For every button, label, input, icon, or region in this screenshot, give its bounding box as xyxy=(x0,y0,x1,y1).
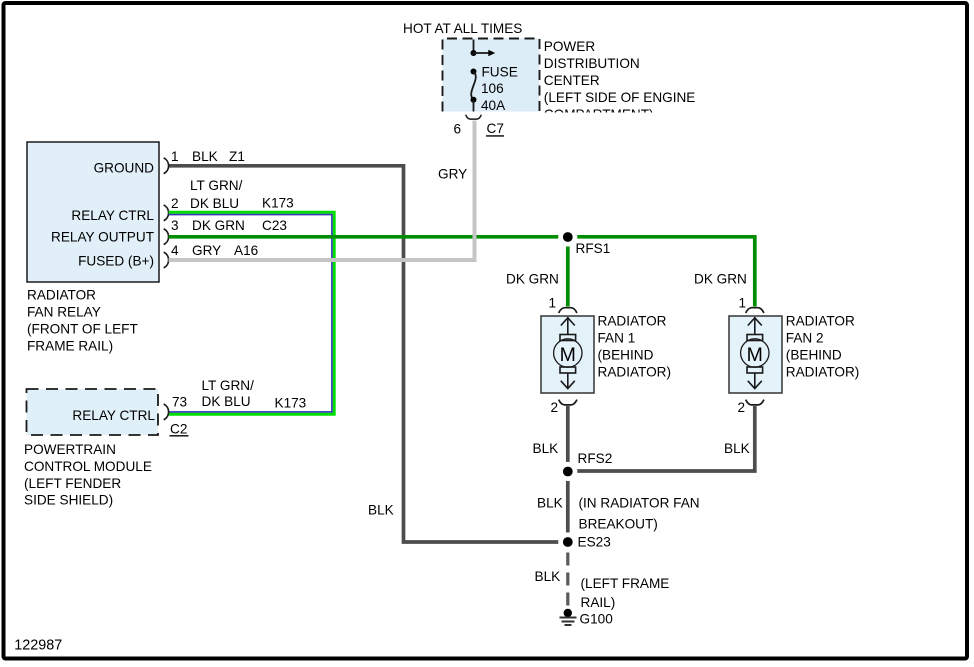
svg-text:BLK: BLK xyxy=(537,496,563,511)
svg-text:6: 6 xyxy=(453,121,461,136)
wire BLK RFS2 to ES23 xyxy=(566,472,570,543)
wire C23 DK GRN: pin3 to fan2 xyxy=(169,237,755,307)
bus arrow (hot feed) xyxy=(474,50,496,57)
splice RFS1 (white halo) xyxy=(558,227,577,246)
note (LEFT FRAME RAIL) xyxy=(581,576,670,610)
svg-text:C23: C23 xyxy=(262,218,287,233)
relay caption xyxy=(27,288,138,354)
svg-text:1: 1 xyxy=(548,296,556,311)
svg-text:2: 2 xyxy=(171,196,179,211)
svg-text:BLK: BLK xyxy=(368,503,394,518)
svg-text:FRAME RAIL): FRAME RAIL) xyxy=(27,339,113,354)
svg-text:A16: A16 xyxy=(234,243,258,258)
fan2 bottom connector arc xyxy=(746,400,764,405)
svg-text:RELAY CTRL: RELAY CTRL xyxy=(71,208,154,223)
svg-text:RELAY OUTPUT: RELAY OUTPUT xyxy=(51,230,154,245)
svg-text:CENTER: CENTER xyxy=(544,73,600,88)
wire label LT GRN/ DK BLU K173 (upper) xyxy=(171,178,294,211)
svg-text:BLK Z1: BLK Z1 xyxy=(192,149,245,164)
wire label LT GRN/ DK BLU K173 (lower) xyxy=(202,378,307,411)
pin 4 number and label GRY A16 xyxy=(171,243,258,258)
radiator fan relay box xyxy=(27,142,159,282)
connector label C7 xyxy=(486,121,504,136)
svg-text:FAN RELAY: FAN RELAY xyxy=(27,305,101,320)
svg-text:FAN 1: FAN 1 xyxy=(598,331,636,346)
svg-text:GRY: GRY xyxy=(438,167,467,182)
PCM caption xyxy=(24,442,152,508)
svg-text:(LEFT FENDER: (LEFT FENDER xyxy=(24,476,121,491)
svg-text:RADIATOR): RADIATOR) xyxy=(598,365,672,380)
svg-text:LT GRN/: LT GRN/ xyxy=(190,178,243,193)
radiator fan 2 motor box xyxy=(729,316,782,393)
svg-text:BLK: BLK xyxy=(535,569,561,584)
svg-text:BLK: BLK xyxy=(724,441,750,456)
connector C7 symbol xyxy=(466,115,482,119)
splice RFS1 xyxy=(563,232,573,242)
connector pin 2 arc xyxy=(164,205,169,221)
svg-text:SIDE SHIELD): SIDE SHIELD) xyxy=(24,493,113,508)
svg-text:C2: C2 xyxy=(170,422,187,437)
svg-text:RADIATOR: RADIATOR xyxy=(598,314,667,329)
wire Z1 BLK: pin1 right, down, to ES23 xyxy=(169,166,568,542)
splice RFS2 (white halo) xyxy=(558,462,577,481)
splice ES23 (white halo) xyxy=(558,532,577,551)
svg-text:RADIATOR): RADIATOR) xyxy=(786,365,860,380)
svg-text:RADIATOR: RADIATOR xyxy=(27,288,96,303)
wire DK GRN stub RFS1 to fan1 xyxy=(566,237,570,307)
svg-text:COMPARTMENT): COMPARTMENT) xyxy=(544,107,654,122)
svg-text:2: 2 xyxy=(737,400,745,415)
connector pin 4 arc xyxy=(164,252,169,268)
fan2 top connector arc xyxy=(746,308,764,313)
svg-text:4: 4 xyxy=(171,243,179,258)
svg-text:122987: 122987 xyxy=(14,637,62,653)
svg-text:C7: C7 xyxy=(487,121,504,136)
svg-text:73: 73 xyxy=(172,395,187,410)
svg-text:RFS2: RFS2 xyxy=(578,451,613,466)
junction dot below fuse xyxy=(471,97,477,103)
svg-text:FUSE: FUSE xyxy=(482,65,518,80)
wire BLK dashed ES23 to G100 xyxy=(566,553,569,609)
fan1 bottom connector arc xyxy=(559,400,577,405)
fuse 106 40A element xyxy=(471,72,476,100)
svg-text:M: M xyxy=(560,344,576,366)
junction dot at fuse top xyxy=(471,50,477,56)
svg-text:RFS1: RFS1 xyxy=(576,241,611,256)
svg-text:(IN RADIATOR FAN: (IN RADIATOR FAN xyxy=(579,496,700,511)
wire K173 LT GRN/DK BLU loop: pin2 right, down, left to PCM pin 73 xyxy=(169,212,335,414)
svg-text:(LEFT SIDE OF ENGINE: (LEFT SIDE OF ENGINE xyxy=(544,90,696,105)
svg-text:DK GRN: DK GRN xyxy=(694,272,747,287)
power distribution center box (dashed) xyxy=(443,39,540,112)
wire fuse to pin 6 xyxy=(473,100,475,112)
note (IN RADIATOR FAN BREAKOUT) xyxy=(579,496,700,532)
svg-text:40A: 40A xyxy=(481,98,506,113)
fan 1 caption xyxy=(598,314,672,380)
svg-text:CONTROL MODULE: CONTROL MODULE xyxy=(24,459,152,474)
wire BLK fan1 to RFS2 xyxy=(566,406,570,471)
svg-text:BREAKOUT): BREAKOUT) xyxy=(579,517,658,532)
wire BLK fan2 down and left to RFS2 xyxy=(568,406,755,471)
svg-text:RADIATOR: RADIATOR xyxy=(786,314,855,329)
svg-text:FAN 2: FAN 2 xyxy=(786,331,824,346)
svg-text:POWERTRAIN: POWERTRAIN xyxy=(24,442,116,457)
svg-text:FUSED (B+): FUSED (B+) xyxy=(78,254,154,269)
svg-text:POWER: POWER xyxy=(544,39,596,54)
pin 3 number and label DK GRN C23 xyxy=(171,218,287,233)
svg-text:(FRONT OF LEFT: (FRONT OF LEFT xyxy=(27,322,138,337)
svg-text:106: 106 xyxy=(481,81,504,96)
junction dot above fuse xyxy=(471,69,477,75)
svg-text:GROUND: GROUND xyxy=(94,161,155,176)
svg-text:1: 1 xyxy=(171,149,179,164)
svg-text:M: M xyxy=(747,344,763,366)
svg-text:DK GRN: DK GRN xyxy=(192,218,245,233)
svg-text:ES23: ES23 xyxy=(578,535,611,550)
svg-text:K173: K173 xyxy=(262,196,294,211)
svg-text:(BEHIND: (BEHIND xyxy=(786,348,842,363)
svg-text:(BEHIND: (BEHIND xyxy=(598,348,654,363)
svg-text:RELAY CTRL: RELAY CTRL xyxy=(72,408,155,423)
wire fuse feed (inside PDC) xyxy=(473,40,475,54)
svg-text:DK BLU: DK BLU xyxy=(202,394,251,409)
svg-text:(LEFT FRAME: (LEFT FRAME xyxy=(581,576,670,591)
svg-text:DISTRIBUTION: DISTRIBUTION xyxy=(544,56,640,71)
svg-text:DK GRN: DK GRN xyxy=(506,272,559,287)
connector pin 3 arc xyxy=(164,229,169,245)
PDC caption xyxy=(544,39,696,122)
connector label C2 xyxy=(170,422,189,437)
connector pin 1 arc xyxy=(164,158,169,174)
svg-text:1: 1 xyxy=(738,296,746,311)
svg-text:3: 3 xyxy=(171,218,179,233)
ground G100 symbol xyxy=(560,609,577,625)
svg-text:RAIL): RAIL) xyxy=(581,595,616,610)
wire GRY vertical from C7 down xyxy=(473,121,477,263)
fan1 top connector arc xyxy=(559,308,577,313)
connector pin 73 arc xyxy=(164,404,169,420)
svg-text:K173: K173 xyxy=(275,396,307,411)
splice ES23 xyxy=(563,537,573,547)
splice RFS2 xyxy=(563,467,573,477)
wire GRY A16 horizontal to pin 4 xyxy=(169,258,477,262)
fan 2 caption xyxy=(786,314,860,380)
value label FUSE 106 40A xyxy=(481,65,518,114)
svg-text:G100: G100 xyxy=(580,612,614,627)
svg-text:HOT AT ALL TIMES: HOT AT ALL TIMES xyxy=(403,21,522,36)
svg-text:GRY: GRY xyxy=(192,243,221,258)
svg-text:BLK: BLK xyxy=(533,441,559,456)
svg-text:LT GRN/: LT GRN/ xyxy=(202,378,255,393)
radiator fan 1 motor box xyxy=(541,316,594,393)
powertrain control module box (dashed) xyxy=(27,389,159,435)
svg-text:DK BLU: DK BLU xyxy=(190,196,239,211)
svg-text:2: 2 xyxy=(550,400,558,415)
